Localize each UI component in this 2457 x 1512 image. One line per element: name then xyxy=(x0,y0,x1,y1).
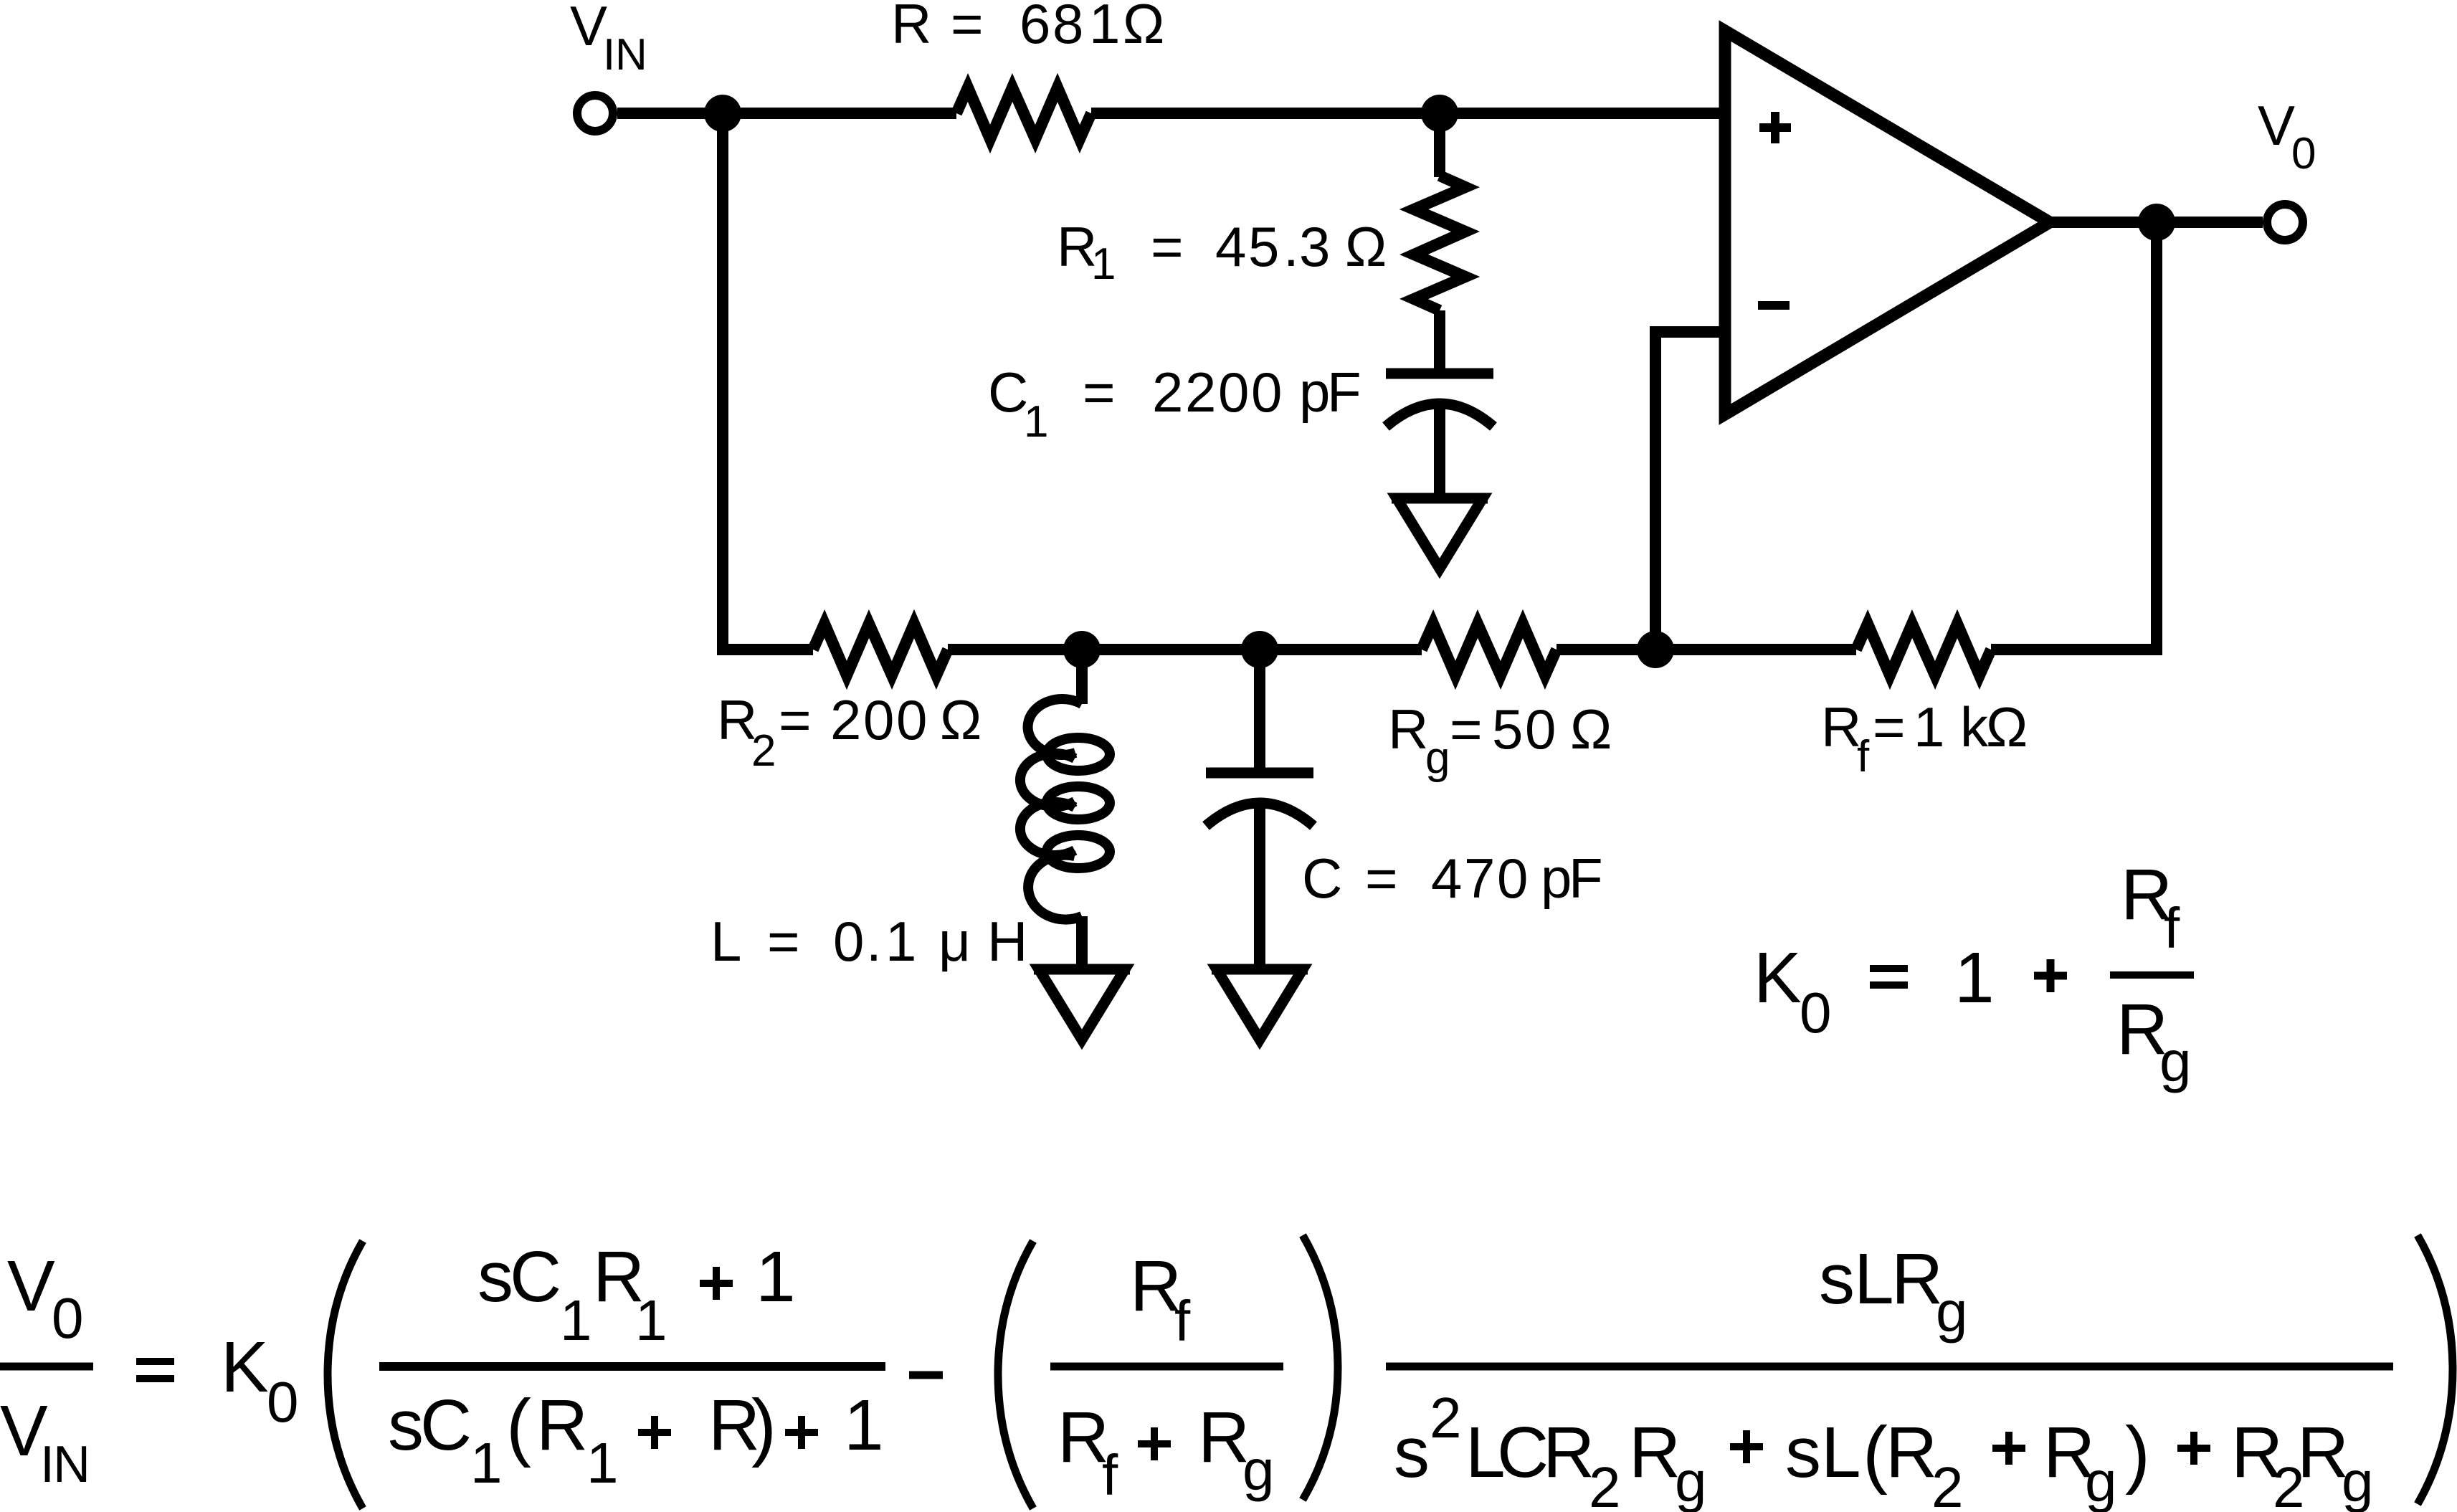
fraction 2: bar xyxy=(1050,1363,1283,1371)
label R1 = 45.3 ohm xyxy=(1057,215,1387,289)
wire: op-amp output xyxy=(2050,217,2263,228)
fraction 3: denominator xyxy=(1394,1386,2374,1512)
svg-text:g: g xyxy=(2342,1450,2374,1512)
wire: bottom rail left xyxy=(723,644,813,655)
wire: feedback from output down xyxy=(2151,222,2162,644)
svg-text:s: s xyxy=(388,1385,424,1465)
svg-text:1: 1 xyxy=(844,1385,884,1465)
terminal VO xyxy=(2267,204,2303,240)
svg-text:1: 1 xyxy=(586,1431,619,1495)
svg-text:V: V xyxy=(7,1246,55,1326)
svg-text:2: 2 xyxy=(1430,1386,1462,1450)
svg-text:1: 1 xyxy=(1954,938,1995,1018)
svg-text:L: L xyxy=(1821,1412,1861,1493)
big open parenthesis 2 xyxy=(998,1241,1033,1508)
resistor Rf xyxy=(1856,624,1991,675)
wire: node A down to bottom rail xyxy=(717,113,728,655)
svg-text:g: g xyxy=(2159,1030,2192,1093)
equation LHS V0/VIN xyxy=(0,1246,93,1493)
svg-text:IN: IN xyxy=(40,1436,90,1493)
svg-text:0: 0 xyxy=(52,1286,84,1350)
wire: node C down xyxy=(1254,650,1265,768)
svg-text:R: R xyxy=(1629,1412,1681,1493)
svg-text:C: C xyxy=(988,361,1028,424)
svg-text:s: s xyxy=(1819,1239,1855,1319)
wire: node B to R1 xyxy=(1434,113,1445,177)
svg-text:s: s xyxy=(477,1237,513,1317)
label R = 681 ohm xyxy=(891,0,1164,55)
svg-text:f: f xyxy=(1174,1289,1191,1353)
svg-text:C: C xyxy=(1497,1412,1549,1493)
resistor R2 xyxy=(813,624,948,675)
svg-text:R: R xyxy=(1821,695,1861,759)
svg-text:g: g xyxy=(1675,1450,1707,1512)
svg-text:s: s xyxy=(1785,1412,1821,1493)
label C1 = 2200 pF xyxy=(988,361,1361,447)
wire: R1 to C1 xyxy=(1434,310,1445,370)
node VO (output junction) xyxy=(2138,204,2175,241)
capacitor C1 xyxy=(1386,374,1493,427)
svg-text:1: 1 xyxy=(470,1431,503,1495)
svg-text:): ) xyxy=(751,1384,776,1468)
label V_IN xyxy=(570,0,647,80)
wire: coil to ground xyxy=(1076,916,1088,969)
label R2 = 200 ohm xyxy=(717,688,982,776)
fraction 1: numerator sC1R1+1 xyxy=(477,1237,796,1352)
label L = 0.1 uH xyxy=(711,910,1027,973)
svg-text:1: 1 xyxy=(635,1288,667,1352)
svg-text:): ) xyxy=(2125,1412,2150,1496)
svg-text:f: f xyxy=(1102,1443,1118,1507)
svg-text:0: 0 xyxy=(267,1370,299,1434)
terminal VIN xyxy=(577,95,613,131)
ground (L branch) xyxy=(1034,969,1130,1040)
label Rg = 50 ohm xyxy=(1388,698,1612,783)
svg-text:0: 0 xyxy=(2291,129,2316,179)
node A (input junction) xyxy=(704,95,741,132)
svg-text:=2200pF: =2200pF xyxy=(1083,361,1361,424)
capacitor C xyxy=(1206,773,1313,826)
svg-text:1: 1 xyxy=(560,1288,592,1352)
op-amp U1 xyxy=(1725,31,2050,414)
svg-text:s: s xyxy=(1394,1412,1430,1493)
label V_0 xyxy=(2258,94,2316,179)
svg-text:R: R xyxy=(536,1385,588,1465)
wire: bottom rail middle xyxy=(948,644,1422,655)
svg-text:L=0.1μH: L=0.1μH xyxy=(711,910,1027,973)
svg-text:2: 2 xyxy=(1931,1455,1964,1512)
svg-text:R: R xyxy=(1886,1412,1937,1493)
label C = 470 pF xyxy=(1302,847,1603,910)
svg-text:f: f xyxy=(1857,732,1870,781)
label Rf = 1 kohm xyxy=(1821,695,2028,781)
node F (feedback junction) xyxy=(1637,631,1674,668)
formula K0 = 1 + Rf/Rg xyxy=(1754,855,2194,1093)
fraction 3: numerator sLRg xyxy=(1819,1239,1968,1344)
svg-text:0: 0 xyxy=(1800,981,1832,1045)
wire: Rg to Rf xyxy=(1557,644,1856,655)
big close parenthesis 2 xyxy=(1303,1235,1338,1500)
wire: VIN to node A xyxy=(617,108,956,119)
svg-text:g: g xyxy=(1242,1438,1275,1502)
big close parenthesis 3 xyxy=(2418,1235,2453,1504)
inductor L xyxy=(1020,699,1110,920)
wire: node L to coil xyxy=(1076,650,1088,704)
svg-text:g: g xyxy=(2085,1450,2117,1512)
svg-text:V: V xyxy=(2258,94,2295,157)
svg-text:=200Ω: =200Ω xyxy=(779,688,982,751)
svg-text:f: f xyxy=(2164,896,2180,960)
svg-text:g: g xyxy=(1936,1280,1968,1344)
node L (inductor junction) xyxy=(1063,631,1101,668)
node B (R1 branch junction) xyxy=(1421,95,1458,132)
equation K0 coefficient xyxy=(221,1327,299,1434)
svg-text:C: C xyxy=(420,1385,472,1465)
svg-text:g: g xyxy=(1425,733,1450,783)
ground (C1 branch) xyxy=(1392,498,1488,569)
svg-text:(: ( xyxy=(1863,1412,1888,1496)
svg-text:L: L xyxy=(1854,1239,1894,1319)
svg-text:1: 1 xyxy=(756,1237,796,1317)
svg-text:=50Ω: =50Ω xyxy=(1450,698,1612,761)
svg-text:2: 2 xyxy=(1589,1455,1621,1512)
wire: C to ground xyxy=(1254,801,1265,969)
resistor Rg xyxy=(1422,624,1557,675)
wire: inverting input to feedback node xyxy=(1655,332,1725,650)
ground (C branch) xyxy=(1212,969,1308,1040)
fraction 1: bar xyxy=(379,1362,885,1371)
wire: R to op-amp + input xyxy=(1091,108,1725,119)
big open parenthesis 1 xyxy=(328,1241,363,1508)
fraction 3: bar xyxy=(1386,1363,2393,1371)
wire: C1 to ground xyxy=(1434,401,1445,498)
svg-text:K: K xyxy=(221,1327,269,1407)
resistor R1 xyxy=(1414,176,1465,310)
fraction 2: denominator Rf+Rg xyxy=(1058,1397,1275,1507)
svg-text:2: 2 xyxy=(751,726,776,776)
wire: Rf to output node xyxy=(1991,644,2162,655)
equation equals sign xyxy=(136,1361,174,1379)
resistor R xyxy=(956,87,1091,139)
svg-text:1: 1 xyxy=(1024,397,1048,447)
svg-text:IN: IN xyxy=(603,30,647,80)
svg-text:C: C xyxy=(510,1237,561,1317)
svg-text:V: V xyxy=(570,0,607,57)
equation minus sign xyxy=(909,1371,943,1379)
node C (capacitor junction) xyxy=(1241,631,1278,668)
svg-text:R=681Ω: R=681Ω xyxy=(891,0,1164,55)
svg-text:C=470pF: C=470pF xyxy=(1302,847,1603,910)
svg-text:=45.3Ω: =45.3Ω xyxy=(1151,215,1387,278)
fraction 1: denominator sC1(R1+R)+1 xyxy=(388,1384,884,1495)
svg-text:K: K xyxy=(1754,938,1802,1018)
svg-text:R: R xyxy=(1543,1412,1595,1493)
svg-text:(: ( xyxy=(506,1384,531,1468)
svg-text:R: R xyxy=(1388,698,1428,761)
svg-text:1: 1 xyxy=(1091,239,1116,289)
fraction 2: numerator Rf xyxy=(1130,1246,1191,1353)
svg-text:=1kΩ: =1kΩ xyxy=(1873,695,2028,759)
